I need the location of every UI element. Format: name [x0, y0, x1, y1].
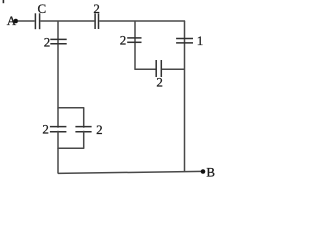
svg-text:B: B: [206, 164, 215, 179]
bottom wire to B: [58, 171, 202, 173]
capacitor 2 (parallel left) plates: [50, 126, 67, 128]
capacitor 1 (x=184.5 branch) plates: [176, 38, 193, 40]
parallel pair: top rail: [58, 107, 84, 109]
wire: sub-circuit bottom right segment: [162, 68, 185, 70]
wire: left branch down to bottom wire: [57, 148, 59, 173]
capacitor 2 (sub-circuit bottom) plates: [155, 60, 157, 77]
stray tick mark top-left: [2, 0, 4, 3]
svg-text:2: 2: [93, 1, 100, 16]
wire C to cap 2 top: [40, 20, 94, 22]
wire A to C1: [18, 20, 35, 22]
capacitor 2 (parallel right) plates: [75, 126, 91, 128]
wire: left vertical branch x=58: [57, 21, 59, 108]
capacitor 2 (top horizontal) plates: [94, 13, 96, 29]
wire cap2 to top-right corner: [99, 20, 185, 22]
capacitor 2 (on x=58 branch) plates: [50, 38, 66, 40]
svg-text:2: 2: [156, 75, 163, 90]
capacitor C (label C) plates: [34, 13, 36, 29]
capacitor 2 (x=135 branch) plates: [127, 37, 141, 39]
svg-text:C: C: [38, 1, 47, 16]
wire: right vertical branch x=184.5: [184, 21, 186, 172]
node B dot: [201, 169, 206, 174]
parallel pair: left branch upper wire: [57, 108, 59, 128]
parallel pair: bottom rail: [58, 147, 84, 149]
parallel pair: right branch lower wire: [83, 131, 85, 149]
svg-text:1: 1: [197, 33, 204, 48]
parallel pair: right branch upper wire: [83, 108, 85, 128]
wire: middle vertical branch x=135: [134, 21, 136, 70]
svg-text:2: 2: [120, 32, 127, 47]
wire: sub-circuit bottom left segment: [135, 68, 156, 70]
parallel pair: left branch lower wire: [57, 131, 59, 149]
svg-text:2: 2: [96, 122, 103, 137]
node A dot: [14, 19, 19, 24]
svg-text:2: 2: [42, 122, 49, 137]
svg-text:2: 2: [44, 34, 51, 49]
